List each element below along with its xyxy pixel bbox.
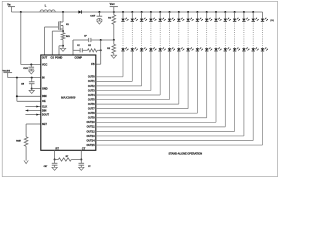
- capacitor COUT: [90, 12, 102, 21]
- resistor R2: [107, 40, 115, 55]
- supply VOUT: [110, 3, 118, 12]
- svg-text:CS: CS: [51, 56, 55, 59]
- wire DIM-OE tie: [17, 78, 41, 102]
- LED string 5 (OUT4): [96, 11, 166, 95]
- svg-text:OUT15: OUT15: [87, 144, 96, 147]
- svg-text:OUT0: OUT0: [88, 76, 95, 79]
- capacitor CCT: [79, 160, 91, 169]
- resistor R1: [108, 12, 115, 40]
- svg-text:(16): (16): [270, 20, 274, 22]
- resistor RZ: [82, 45, 100, 52]
- capacitor CRT: [44, 160, 58, 169]
- ground CIN: [29, 89, 34, 94]
- ground RSET: [24, 160, 28, 163]
- svg-text:FB: FB: [91, 63, 95, 66]
- node rail-VCC junction: [20, 11, 22, 13]
- wire rail to VCC pin: [21, 12, 41, 65]
- LED string 10 (OUT9): [96, 11, 212, 118]
- svg-text:CRT: CRT: [44, 166, 48, 168]
- svg-text:RCS: RCS: [66, 36, 70, 38]
- svg-text:COUT: COUT: [90, 16, 95, 18]
- node CIN bottom: [31, 88, 33, 90]
- node VOUT junction: [113, 11, 115, 13]
- svg-text:OUT: OUT: [42, 56, 48, 59]
- wire CIN to GND pin: [32, 88, 41, 90]
- LED string 1 (OUT0): [96, 11, 129, 77]
- svg-text:STAND-ALONE OPERATION: STAND-ALONE OPERATION: [169, 151, 203, 155]
- svg-text:OUT9: OUT9: [88, 117, 95, 120]
- LED string 3 (OUT2): [96, 11, 147, 86]
- ground CVCC: [29, 71, 34, 74]
- svg-text:OUT12: OUT12: [87, 130, 96, 133]
- LED string 13 (OUT12): [96, 11, 240, 131]
- svg-text:GND: GND: [42, 87, 48, 90]
- svg-text:COMP: COMP: [74, 56, 82, 59]
- svg-text:SET: SET: [42, 123, 47, 126]
- node comp-FB bottom: [100, 49, 102, 51]
- LED string 4 (OUT3): [96, 11, 157, 90]
- wire COMP riser: [72, 40, 74, 55]
- ground R2: [111, 55, 116, 58]
- wire IN: [8, 77, 41, 79]
- label stand-alone operation: [169, 151, 203, 155]
- svg-text:OUT8: OUT8: [88, 112, 95, 115]
- svg-text:MAX16809: MAX16809: [61, 96, 76, 100]
- svg-text:CZ: CZ: [77, 45, 80, 47]
- svg-text:IN: IN: [42, 76, 45, 79]
- transistor N1: [45, 12, 70, 31]
- node DIM junction: [16, 95, 18, 97]
- svg-text:OE: OE: [42, 100, 46, 103]
- LED string 12 (OUT11): [96, 11, 231, 127]
- ground CRT: [52, 167, 57, 170]
- svg-text:OUT5: OUT5: [88, 98, 95, 101]
- node COUT junction: [98, 11, 100, 13]
- node RT: [54, 159, 56, 161]
- svg-text:VCC: VCC: [42, 63, 47, 66]
- LED string 15 (OUT14): [96, 11, 259, 141]
- svg-text:OUT11: OUT11: [87, 126, 96, 129]
- svg-text:OUT10: OUT10: [87, 121, 96, 124]
- capacitor CVCC: [23, 65, 34, 71]
- node FB divider: [113, 39, 115, 41]
- LED string 7 (OUT6): [96, 11, 185, 104]
- signal arrow CLK: [25, 105, 40, 107]
- resistor RT: [55, 156, 82, 161]
- label LED count: [270, 20, 274, 22]
- node VCC cap junction: [30, 64, 32, 66]
- ground COUT: [97, 21, 102, 24]
- LED string 2 (OUT1): [96, 11, 138, 81]
- signal arrow DOUT: [25, 114, 40, 116]
- svg-text:DOUT: DOUT: [42, 113, 50, 116]
- inductor L: [40, 4, 55, 12]
- capacitor CP: [73, 36, 114, 43]
- wire RCS to PGND pin: [59, 46, 63, 55]
- node drain junction: [62, 11, 64, 13]
- node CT: [80, 159, 82, 161]
- LED string 11 (OUT10): [96, 11, 222, 122]
- signal arrow DIN: [25, 109, 40, 111]
- resistor RCS: [61, 31, 70, 46]
- wire gate to OUT pin: [44, 27, 46, 55]
- LED string 6 (OUT5): [96, 11, 175, 100]
- svg-text:OUT4: OUT4: [88, 94, 95, 97]
- svg-text:CT: CT: [88, 166, 90, 168]
- svg-text:OUT13: OUT13: [87, 135, 96, 138]
- wire top rail: [12, 11, 263, 13]
- wire CS: [52, 31, 63, 55]
- wire CT pin stub: [80, 150, 82, 159]
- LED string 16 (OUT15): [96, 12, 268, 145]
- svg-text:CLK: CLK: [42, 105, 47, 108]
- LED string 9 (OUT8): [96, 11, 203, 113]
- LED string 14 (OUT13): [96, 11, 250, 136]
- resistor RSET: [16, 137, 28, 161]
- ground RCS: [60, 46, 65, 52]
- svg-text:OUT14: OUT14: [87, 139, 96, 142]
- wire RT pin stub: [54, 150, 56, 159]
- svg-text:RT: RT: [56, 147, 60, 150]
- svg-text:RZ: RZ: [88, 45, 91, 47]
- svg-text:OUT2: OUT2: [88, 85, 95, 88]
- diode D1: [78, 10, 81, 13]
- node comp-FB top: [100, 39, 102, 41]
- svg-text:OUT3: OUT3: [88, 89, 95, 92]
- svg-text:PGND: PGND: [55, 56, 62, 59]
- svg-text:CVCC: CVCC: [23, 68, 29, 70]
- capacitor CIN: [21, 78, 35, 89]
- wire FB: [96, 40, 101, 64]
- svg-text:RSET: RSET: [16, 141, 21, 143]
- svg-text:OUT6: OUT6: [88, 103, 95, 106]
- op-amp U1 MAX16809 (LED driver IC): [41, 55, 96, 150]
- ground CCT: [79, 167, 84, 170]
- svg-text:OUT7: OUT7: [88, 108, 95, 111]
- wire SET: [26, 124, 41, 137]
- node IN-DIM junction: [16, 77, 18, 79]
- node source junction: [62, 30, 64, 32]
- supply VCC (5V): [3, 71, 13, 78]
- svg-text:OUT1: OUT1: [88, 80, 95, 83]
- svg-text:DIN: DIN: [42, 109, 47, 112]
- capacitor CZ: [73, 45, 82, 52]
- node CIN junction: [31, 77, 33, 79]
- svg-text:DIM: DIM: [42, 95, 47, 98]
- LED string 8 (OUT7): [96, 11, 194, 109]
- node RCS bottom: [62, 45, 64, 47]
- supply VIN: [7, 3, 15, 12]
- svg-text:CT: CT: [82, 147, 86, 150]
